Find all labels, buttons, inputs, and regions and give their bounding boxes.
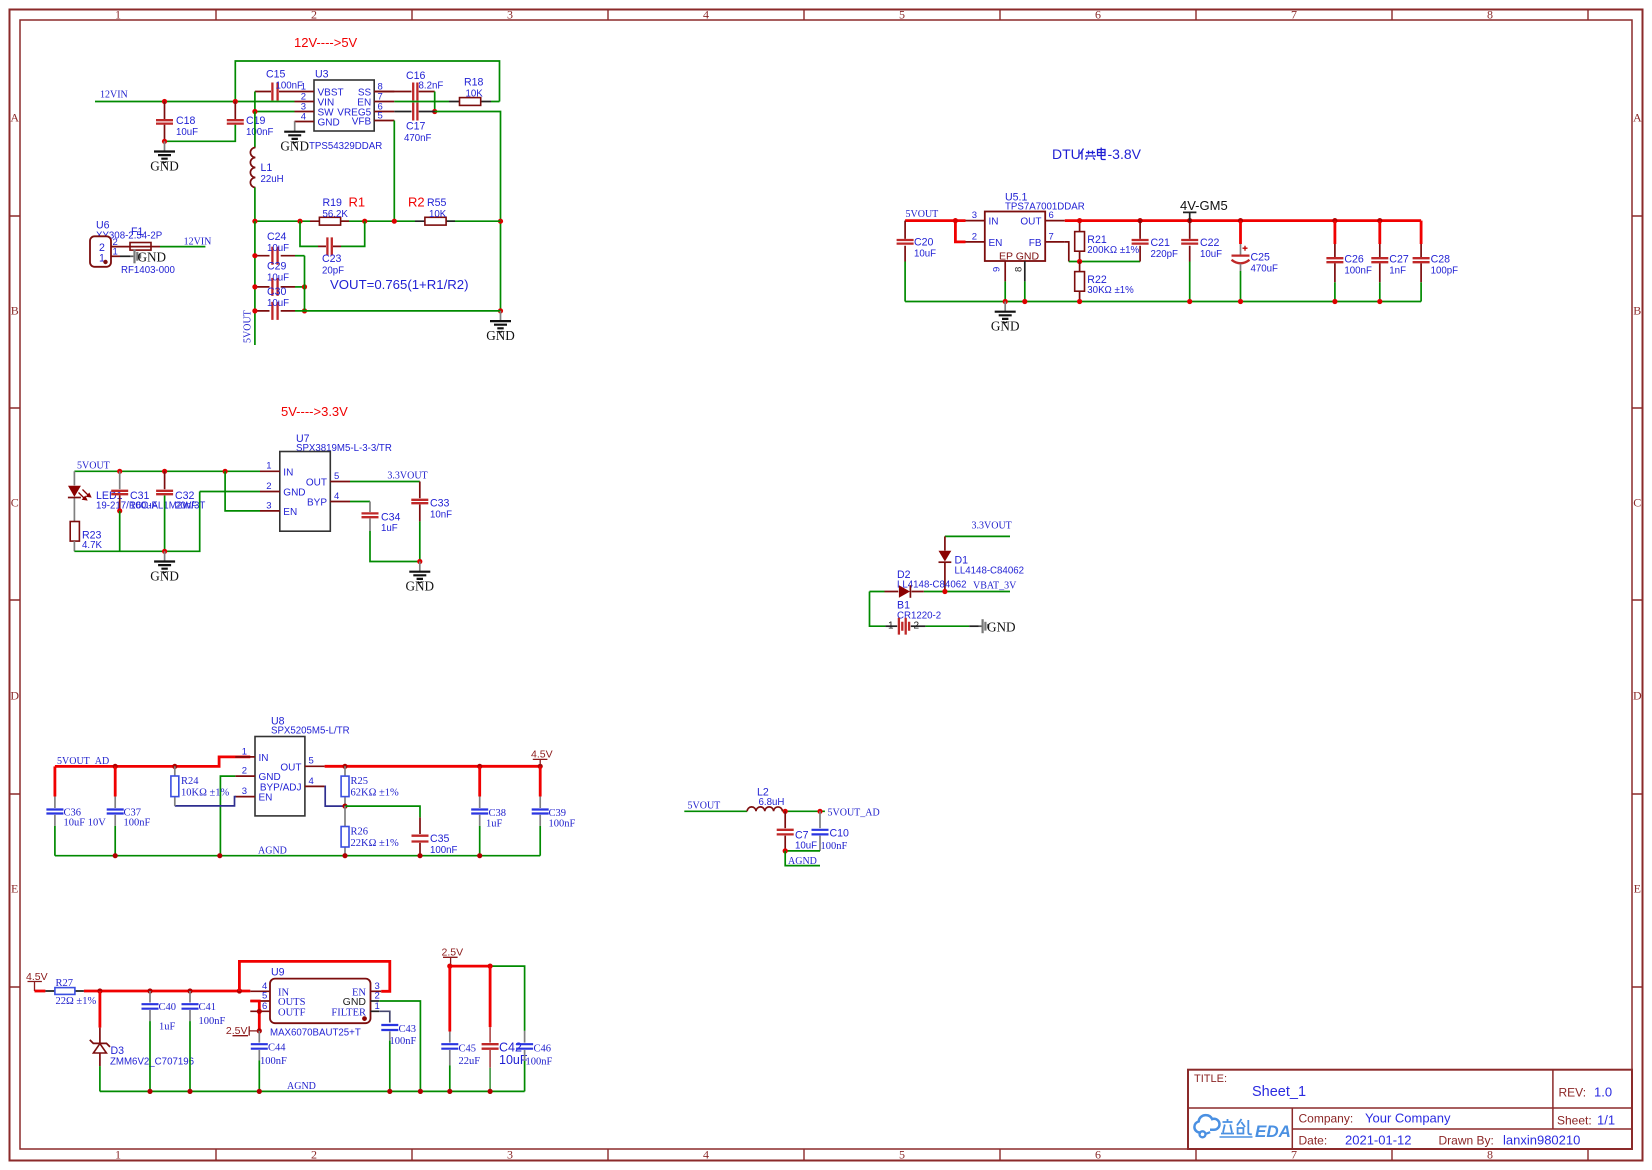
svg-text:10uF: 10uF [1200,249,1222,260]
svg-text:1: 1 [266,461,271,472]
svg-text:C41: C41 [199,1002,217,1013]
wire FB node [1065,242,1069,262]
wire EN branch [955,221,965,242]
junction rail x1240.5 [1238,218,1243,223]
svg-text:A: A [1633,111,1642,125]
svg-text:20nF: 20nF [175,501,197,512]
svg-text:E: E [11,882,18,896]
svg-text:10uF: 10uF [267,243,289,254]
capacitor C17 [394,111,434,113]
svg-text:C24: C24 [267,231,287,243]
svg-text:RF1403-000: RF1403-000 [121,265,175,276]
svg-text:C26: C26 [1344,254,1364,266]
svg-text:470nF: 470nF [404,133,432,144]
svg-text:5: 5 [334,471,339,482]
svg-text:C35: C35 [430,833,450,845]
junction C10 top [817,809,822,814]
svg-text:GND: GND [138,250,167,265]
svg-text:5VOUT: 5VOUT [906,209,939,220]
svg-text:100nF: 100nF [124,817,151,828]
capacitor C41 [189,991,191,1003]
junction row L1 [252,219,257,224]
svg-text:LL4148-C84062: LL4148-C84062 [955,565,1025,576]
svg-text:9: 9 [992,267,1003,272]
wire AGND stub (L2) [785,851,820,866]
junction row C32 [162,549,167,554]
junction AGND2 x259.3 [257,1089,262,1094]
wire OUT rail 4V-GM5 [1065,219,1421,222]
svg-text:R55: R55 [427,197,447,209]
resistor R22 30K [1079,262,1081,302]
junction R22 bottom [1077,299,1082,304]
svg-text:4: 4 [301,111,306,122]
svg-text:2021-01-12: 2021-01-12 [1345,1133,1412,1148]
resistor R19 56.2K [310,220,349,222]
svg-text:EDA: EDA [1255,1122,1291,1141]
svg-text:10uF: 10uF [267,273,289,284]
U9 filter dot [362,1016,367,1021]
junction 12VIN at C18 [162,99,167,104]
svg-text:VOUT=0.765(1+R1/R2): VOUT=0.765(1+R1/R2) [330,277,469,292]
wire battery loop [870,592,886,627]
svg-text:22uF: 22uF [459,1056,481,1067]
svg-text:ZMM6V2_C707196: ZMM6V2_C707196 [110,1056,194,1067]
wire C7/C10 bottom [785,850,820,852]
svg-text:Company:: Company: [1299,1112,1354,1126]
svg-text:5: 5 [899,1148,905,1162]
U9 pin 1 FILTER [371,1010,380,1012]
svg-text:GND: GND [283,488,305,499]
svg-text:C27: C27 [1389,254,1409,266]
svg-text:4: 4 [703,8,709,22]
capacitor C31 100uF [119,471,121,489]
wire VFB vertical [393,121,395,222]
svg-text:10K: 10K [429,209,447,220]
svg-text:4: 4 [703,1148,709,1162]
svg-text:IN: IN [989,217,999,228]
capacitor C20 [904,221,906,262]
svg-text:R24: R24 [181,776,199,787]
junction rail x1140.1 [1138,218,1143,223]
resistor R25 62K [344,766,346,806]
wire C20 to gnd row [904,262,906,302]
svg-text:5: 5 [378,110,383,121]
U8 pin 1 IN [235,756,255,758]
junction C22 bottom [1187,299,1192,304]
svg-text:6: 6 [1095,1148,1101,1162]
svg-text:C43: C43 [399,1024,417,1035]
svg-text:VFB: VFB [352,116,372,127]
resistor R27 22R [45,990,84,992]
svg-text:2: 2 [311,8,317,22]
svg-text:C25: C25 [1251,252,1271,264]
U3 pin 7 EN [374,101,394,103]
junction IN rail x190 [187,988,192,993]
wire VBAT_3V [870,591,1011,593]
capacitor C34 1uF [350,501,370,503]
wire VREG5 right and down [435,112,501,311]
resistor R24 10K [174,766,176,806]
svg-text:6: 6 [1095,8,1101,22]
wire C31 to row [119,511,121,551]
junction IN rail x239.4 [237,988,242,993]
svg-text:Sheet:: Sheet: [1557,1114,1592,1128]
capacitor C39 [539,766,542,796]
junction IN rail x99.9 [97,988,102,993]
U5.1 pin 9 EP [1004,261,1006,281]
inductor L1 22uH [250,148,255,188]
svg-text:4: 4 [309,776,314,787]
U3 pin 2 VIN [295,101,315,103]
svg-text:C20: C20 [914,237,934,249]
svg-text:20pF: 20pF [322,266,344,277]
U3 pin 1 VBST [295,91,315,93]
capacitor C44 [258,1031,260,1043]
junction R55 right [498,219,503,224]
wire U9 GND green [379,1001,420,1091]
wire U9 IN rail [84,990,250,993]
ground sym U7 right [409,562,430,583]
U3 pin 3 SW [295,111,315,113]
wire gnd row to right [295,310,501,312]
U8 pin 5 OUT [305,765,325,767]
svg-text:F1: F1 [131,226,143,238]
junction 2.5V node [257,1028,262,1033]
capacitor C37 [114,766,117,796]
wire L1 to output row [254,188,256,222]
svg-text:R1: R1 [349,195,366,210]
wire U7 GND pin [200,491,260,493]
svg-text:C46: C46 [534,1044,552,1055]
svg-text:Drawn By:: Drawn By: [1439,1134,1494,1148]
capacitor C15 [255,91,295,93]
svg-text:10uF 10V: 10uF 10V [64,817,107,828]
svg-text:1: 1 [115,1148,121,1162]
wire U8 OUT rail 4.5V [325,765,541,768]
svg-text:12V---->5V: 12V---->5V [294,35,358,50]
svg-text:C40: C40 [159,1002,177,1013]
svg-text:10K: 10K [466,89,484,100]
svg-text:R2: R2 [408,195,425,210]
svg-text:100nF: 100nF [260,1056,287,1067]
junction OUT C38 [477,764,482,769]
capacitor C22 10uF [1189,221,1191,262]
junction AGND2 x190 [187,1089,192,1094]
wire OUTS/OUTF vertical [250,1001,259,1031]
junction gnd row pin9 [1003,299,1008,304]
svg-text:C21: C21 [1151,237,1171,249]
svg-text:C: C [11,496,19,510]
svg-text:1: 1 [115,8,121,22]
U7 pin 2 GND [260,491,280,493]
svg-text:U9: U9 [271,966,285,978]
svg-text:GND: GND [987,619,1016,634]
wire ADJ to C35 [345,806,420,817]
svg-text:R27: R27 [56,978,74,989]
svg-text:7: 7 [1291,8,1297,22]
svg-text:CR1220-2: CR1220-2 [897,610,941,621]
wire 12VIN main [95,101,295,103]
junction rail C37 [113,764,118,769]
svg-text:1: 1 [375,1001,380,1012]
svg-text:3: 3 [242,786,247,797]
junction C30 left [252,308,257,313]
svg-text:EN: EN [989,238,1003,249]
junction R21 top [1077,218,1082,223]
svg-text:10KΩ ±1%: 10KΩ ±1% [181,787,230,798]
resistor R23 4.7K [70,522,79,542]
svg-text:GND: GND [150,158,179,173]
svg-text:100nF: 100nF [821,841,848,852]
svg-text:AGND: AGND [788,856,817,867]
U5.1 pin 6 OUT [1045,220,1065,222]
svg-text:OUT: OUT [280,762,301,773]
U9 pin 3 EN [371,990,382,992]
svg-text:EP GND: EP GND [999,250,1039,262]
junction VREG5/C16 [432,109,437,114]
ground right sym U6 pin1 [120,255,130,257]
svg-text:GND: GND [280,139,309,154]
junction OUT R25 [342,764,347,769]
svg-text:100uF: 100uF [130,501,158,512]
svg-text:GND: GND [318,117,340,128]
svg-text:EN: EN [259,793,273,804]
svg-text:D3: D3 [111,1045,125,1057]
svg-text:C29: C29 [267,261,287,273]
junction row R19 left [297,219,302,224]
svg-text:SPX5205M5-L/TR: SPX5205M5-L/TR [271,725,350,736]
svg-text:6: 6 [1049,210,1054,221]
junction gnd link [162,139,167,144]
svg-text:1nF: 1nF [1389,266,1406,277]
svg-text:R25: R25 [351,776,369,787]
junction C31 top [117,469,122,474]
svg-text:10uF: 10uF [914,249,936,260]
junction 2.5V C45 [447,964,452,969]
wire U8 GND to AGND [220,776,235,856]
inductor L2 6.8uH [747,807,782,811]
svg-text:R19: R19 [323,197,343,209]
svg-text:10nF: 10nF [430,510,452,521]
svg-text:6: 6 [262,1001,267,1012]
junction AGND2 x490.1 [488,1089,493,1094]
U5.1 pin 3 IN [966,220,985,222]
svg-text:1/1: 1/1 [1597,1113,1615,1128]
svg-text:VBAT_3V: VBAT_3V [973,581,1017,592]
U7 pin 3 EN [260,510,280,512]
svg-text:3.3VOUT: 3.3VOUT [387,471,427,482]
svg-text:GND: GND [991,319,1020,334]
svg-text:10uF: 10uF [795,841,817,852]
svg-text:100nF: 100nF [199,1016,226,1027]
svg-text:8: 8 [1487,8,1493,22]
svg-text:R26: R26 [351,827,369,838]
svg-text:5V---->3.3V: 5V---->3.3V [281,404,348,419]
junction EN branch [953,218,958,223]
junction rail x1379.8 [1377,218,1382,223]
capacitor C46 100nF [524,1031,526,1043]
svg-text:IN: IN [283,467,293,478]
svg-text:C33: C33 [430,498,450,510]
wire 5VOUT_AD rail [55,757,250,767]
diode D1 LL4148 [944,536,946,550]
svg-text:1uF: 1uF [159,1022,176,1033]
wire top loop to EN [239,961,389,991]
resistor R55 10K [415,220,455,222]
wire C15 to SW node [255,92,295,112]
wire output row [255,220,501,222]
capacitor C10 100nF [819,811,821,828]
resistor R21 200K [1079,221,1081,262]
svg-text:2: 2 [242,766,247,777]
svg-text:1: 1 [888,620,894,631]
svg-text:56.2K: 56.2K [323,209,349,220]
wire ADJ node [325,786,345,806]
svg-text:8: 8 [1014,267,1025,272]
U3 pin 5 VFB [374,120,394,122]
junction C24 left [252,253,257,258]
svg-text:BYP/ADJ: BYP/ADJ [260,782,302,793]
U3 pin 4 GND [295,121,315,123]
svg-text:5VOUT: 5VOUT [688,801,721,812]
ground sym block1 left [154,141,175,162]
U8 pin 2 GND [235,775,255,777]
capacitor C18 [164,102,166,142]
svg-text:4.7K: 4.7K [82,540,102,551]
svg-text:C22: C22 [1200,237,1220,249]
U7 pin 5 OUT [330,481,350,483]
wire 3.3VOUT [350,481,420,483]
wire AGND row (U9) [100,1090,525,1092]
U5.1 pin 2 EN [966,241,985,243]
svg-text:1: 1 [242,746,247,757]
svg-text:B: B [1633,304,1641,318]
wire 4.5V to R27 [35,990,46,993]
junction C32 top [162,469,167,474]
wire C16 down to VREG5 line [434,92,436,112]
capacitor C29 [255,286,295,288]
ground sym U3 [284,122,305,143]
capacitor C7 10uF [784,811,786,828]
junction C7 top [783,809,788,814]
svg-text:12VIN: 12VIN [184,236,212,247]
svg-text:DTU: DTU [1052,146,1081,162]
capacitor C30 [255,310,295,312]
junction FB node [1077,259,1082,264]
wire U9 FILTER to C43 [379,1011,390,1022]
capacitor C16 [374,91,435,93]
U5.1 pin 8 GND [1024,261,1026,281]
svg-text:1.0: 1.0 [1594,1085,1612,1100]
junction AGND2 x150 [147,1089,152,1094]
svg-text:C44: C44 [268,1042,286,1053]
capacitor C42 10uF [489,966,492,1027]
capacitor C28 100pF [1420,221,1423,244]
svg-text:6.8uH: 6.8uH [759,797,785,808]
svg-text:L1: L1 [261,162,273,174]
wire 5VOUT main (U7) [74,470,260,472]
svg-text:100nF: 100nF [430,845,458,856]
svg-text:TPS54329DDAR: TPS54329DDAR [309,141,382,152]
svg-text:100nF: 100nF [276,80,304,91]
svg-text:3: 3 [972,210,977,221]
junction C7 bottom [783,848,788,853]
capacitor C21 220pF [1139,221,1141,262]
junction row R19 right [362,219,367,224]
junction rail R24 [172,764,177,769]
capacitor C38 [478,766,481,796]
junction C27 bottom [1377,299,1382,304]
svg-text:LL4148-C84062: LL4148-C84062 [897,579,967,590]
svg-text:5VOUT_AD: 5VOUT_AD [828,807,880,818]
wire 12VIN top loop [235,61,499,102]
ground sym block1 bottom right [490,311,511,332]
svg-text:Sheet_1: Sheet_1 [1252,1084,1306,1100]
svg-text:2: 2 [266,481,271,492]
svg-text:C28: C28 [1431,254,1451,266]
svg-text:U3: U3 [315,69,329,81]
capacitor C43 [381,1025,398,1030]
wire 12VIN from fuse [160,246,205,248]
svg-text:lanxin980210: lanxin980210 [1503,1133,1580,1148]
svg-text:200KΩ ±1%: 200KΩ ±1% [1087,245,1139,256]
svg-text:C17: C17 [406,121,426,133]
U9 pin 4 IN [250,990,270,992]
wire 3.3VOUT stub [945,535,1010,537]
ground sym U5.1 [995,302,1016,323]
junction rail x1334.9 [1332,218,1337,223]
wire AGND row (U8) [55,855,540,857]
junction gnd row pin8 [1022,299,1027,304]
U3 ground pin4 wire [294,101,296,103]
svg-text:5VOUT: 5VOUT [77,460,110,471]
svg-text:2: 2 [311,1148,317,1162]
wire U8 EN navy [175,797,236,806]
svg-text:C7: C7 [795,829,809,841]
wire 2.5V node top [450,965,490,968]
svg-text:OUT: OUT [1020,217,1041,228]
svg-text:C23: C23 [322,253,342,265]
svg-text:FB: FB [1029,238,1042,249]
U9 pin 2 GND [371,1000,380,1002]
svg-text:22uH: 22uH [261,174,284,185]
svg-text:7: 7 [1049,232,1054,243]
resistor R18 10K [449,101,491,103]
svg-text:100nF: 100nF [549,819,576,830]
svg-text:1: 1 [113,247,118,258]
U9 pin 6 OUTF [250,1010,270,1012]
svg-text:22KΩ ±1%: 22KΩ ±1% [351,838,400,849]
wire EN to R18 [394,101,499,103]
LED1 [73,471,75,521]
wire 5VOUT to L2 [684,810,747,812]
junction C33/C34 gnd [417,559,422,564]
capacitor C40 [149,991,151,1003]
wire gnd row DTU [905,301,1421,303]
junction AGND x115.2 [113,853,118,858]
svg-text:AGND: AGND [287,1081,316,1092]
capacitor C24 [255,255,295,257]
svg-text:4: 4 [334,491,339,502]
svg-text:8.2nF: 8.2nF [419,80,444,91]
wire 5VOUT vertical rail [254,221,256,345]
junction AGND2 x389.8 [387,1089,392,1094]
junction AGND2 x420.4 [418,1089,423,1094]
svg-text:Date:: Date: [1299,1134,1328,1148]
junction 2.5V C42 [488,964,493,969]
logo cloud EDA [1194,1115,1219,1137]
capacitor C36 [54,766,57,796]
